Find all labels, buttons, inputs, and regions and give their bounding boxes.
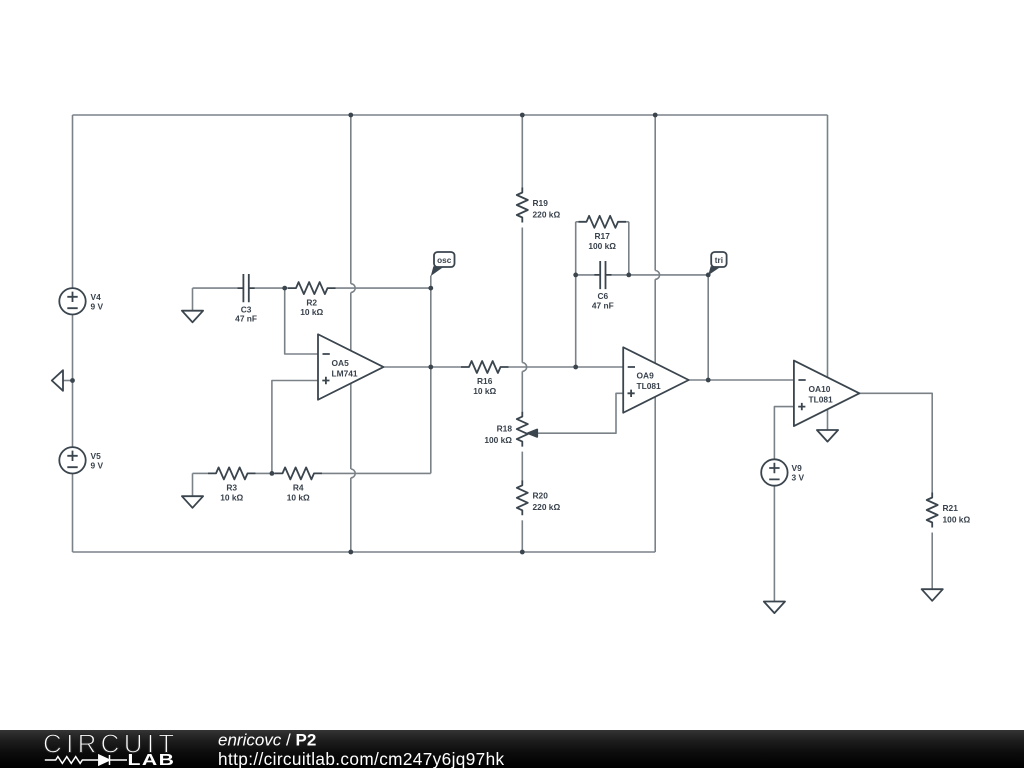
resistor R2 — [288, 282, 336, 294]
voltage source V9 — [761, 459, 787, 485]
wire R17 top left — [576, 221, 579, 223]
svg-text:R20: R20 — [533, 491, 549, 501]
resistor R19 — [517, 188, 528, 223]
osc flag pointer — [431, 266, 443, 276]
svg-text:V4: V4 — [91, 292, 102, 302]
wire R21 to ground — [931, 533, 933, 590]
wire mid vertical lower — [350, 478, 352, 552]
wire C6 to tri node — [612, 274, 709, 276]
svg-text:R4: R4 — [293, 483, 304, 493]
svg-text:R16: R16 — [477, 376, 493, 386]
resistor R21 — [927, 493, 938, 528]
svg-text:http://circuitlab.com/cm247y6j: http://circuitlab.com/cm247y6jq97hk — [218, 749, 505, 768]
wire vertical x655 upper — [654, 115, 656, 271]
svg-text:OA5: OA5 — [332, 358, 350, 368]
junction node 1 — [348, 113, 353, 118]
svg-text:LAB: LAB — [128, 751, 176, 768]
svg-text:10 kΩ: 10 kΩ — [300, 307, 323, 317]
svg-text:47 nF: 47 nF — [235, 314, 257, 324]
wire C3 to R2 — [255, 287, 288, 289]
svg-text:10 kΩ: 10 kΩ — [287, 492, 310, 502]
wire hop over OA5-OA9 wire — [522, 363, 526, 372]
svg-text:TL081: TL081 — [637, 381, 662, 391]
wire OA9 output to OA10 minus input — [689, 379, 794, 381]
wire top rail — [73, 114, 828, 116]
wire rail to R19 — [521, 115, 523, 188]
node terminal arrow — [52, 370, 63, 391]
svg-text:R17: R17 — [595, 231, 611, 241]
svg-text:100 kΩ: 100 kΩ — [943, 514, 971, 524]
wire C6 left — [576, 274, 595, 276]
svg-text:tri: tri — [715, 256, 723, 265]
wire C3 ground stub — [192, 288, 194, 311]
wire hop over C6 wire — [655, 271, 659, 280]
junction node 12 — [573, 273, 578, 278]
ground under R3 — [182, 496, 203, 508]
wire hop over R2 wire — [351, 284, 355, 293]
junction node 14 — [706, 273, 711, 278]
capacitor C3 — [237, 274, 254, 302]
junction node 10 — [348, 550, 353, 555]
footer bar — [0, 730, 1024, 768]
wire tri node down to OA9 output — [707, 275, 709, 380]
resistor R17 — [579, 216, 627, 228]
svg-text:LM741: LM741 — [332, 368, 358, 378]
svg-text:R3: R3 — [226, 483, 237, 493]
ground under C3 — [182, 311, 203, 323]
wire R19 to hop — [521, 228, 523, 363]
voltage source V4 — [59, 288, 85, 314]
svg-text:TL081: TL081 — [809, 395, 834, 405]
wire C6 junction down to OA9 minus wire — [575, 275, 577, 367]
resistor R4 — [275, 467, 323, 479]
wire R17 top right — [626, 221, 629, 223]
wire ground to C3 — [193, 287, 238, 289]
svg-text:V9: V9 — [792, 463, 803, 473]
svg-text:osc: osc — [437, 256, 452, 265]
R18 wiper arrow — [528, 430, 537, 437]
wire R17 left vertical — [575, 222, 577, 275]
voltage source V5 — [59, 447, 85, 473]
svg-text:220 kΩ: 220 kΩ — [533, 502, 561, 512]
svg-text:3 V: 3 V — [792, 473, 805, 483]
wire hop over R4 wire — [351, 469, 355, 478]
wire OA5 plus input to R3/R4 junction — [272, 381, 318, 474]
potentiometer R18 — [517, 412, 528, 447]
svg-text:100 kΩ: 100 kΩ — [588, 241, 616, 251]
wire mid vertical middle — [350, 293, 352, 470]
svg-text:R2: R2 — [306, 297, 317, 307]
junction node 11 — [520, 550, 525, 555]
wire R16 to OA9 minus input — [509, 366, 624, 368]
wire bottom rail — [73, 551, 656, 553]
junction node 4 — [70, 378, 75, 383]
ground under V9 — [764, 602, 785, 614]
wire R20 to bottom rail — [521, 520, 523, 552]
op-amp OA10 — [794, 361, 860, 427]
svg-text:9 V: 9 V — [91, 302, 104, 312]
wire right vertical (rail to ground under OA10) — [827, 115, 829, 430]
resistor R3 — [208, 467, 255, 479]
svg-text:10 kΩ: 10 kΩ — [473, 386, 496, 396]
tri flag pointer — [708, 266, 720, 275]
svg-text:100 kΩ: 100 kΩ — [484, 435, 512, 445]
CircuitLab logo zigzag and diode — [45, 755, 127, 765]
wire mid vertical upper — [350, 115, 352, 284]
junction node 13 — [626, 273, 631, 278]
wire OA5 output to R16 — [384, 366, 462, 368]
junction node 8 — [573, 365, 578, 370]
wire OA10 plus input to V9 — [774, 407, 794, 460]
wire R3 ground stub — [192, 473, 194, 496]
junction node 3 — [653, 113, 658, 118]
wire V9 to ground — [773, 486, 775, 602]
wire ground to R3 — [193, 472, 209, 474]
junction node 7 — [428, 365, 433, 370]
junction node 5 — [282, 286, 287, 291]
op-amp OA5 — [318, 334, 384, 400]
junction node 6 — [428, 286, 433, 291]
wire V5 to bottom rail — [72, 474, 74, 553]
junction node 15 — [706, 378, 711, 383]
svg-text:220 kΩ: 220 kΩ — [533, 209, 561, 219]
wire OA10 output to R21 — [859, 393, 932, 492]
wire OA9 plus input to R18 wiper — [537, 393, 623, 433]
svg-text:enricovc / P2: enricovc / P2 — [218, 731, 316, 750]
junction node 2 — [520, 113, 525, 118]
ground under OA10 — [817, 430, 838, 442]
wire node arrow stub — [63, 380, 73, 382]
svg-text:OA10: OA10 — [809, 384, 831, 394]
wire hop to R18 — [521, 371, 523, 411]
wire V4 to V5 — [72, 315, 74, 448]
wire left rail to V4 — [72, 115, 74, 288]
tri flag box — [711, 252, 726, 267]
wire R17 right vertical — [628, 222, 630, 275]
ground under R21 — [922, 589, 943, 601]
svg-text:R18: R18 — [497, 424, 513, 434]
wire osc node vertical — [430, 276, 432, 474]
wire R2 to osc node — [336, 287, 431, 289]
op-amp OA9 — [623, 347, 689, 413]
wire junction to OA5 minus input — [285, 288, 318, 354]
svg-text:V5: V5 — [91, 451, 102, 461]
svg-text:OA9: OA9 — [637, 371, 655, 381]
wire R3 to R4 — [256, 472, 275, 474]
resistor R20 — [517, 480, 528, 515]
junction node 9 — [270, 471, 275, 476]
wire R4 to osc vertical — [322, 472, 431, 474]
svg-text:9 V: 9 V — [91, 461, 104, 471]
capacitor C6 — [594, 261, 611, 289]
svg-text:10 kΩ: 10 kΩ — [220, 492, 243, 502]
svg-text:R19: R19 — [533, 198, 549, 208]
osc flag box — [434, 252, 455, 267]
svg-text:47 nF: 47 nF — [592, 301, 614, 311]
wire vertical x655 lower — [654, 279, 656, 552]
wire R18 to R20 — [521, 452, 523, 481]
svg-text:R21: R21 — [943, 503, 959, 513]
resistor R16 — [461, 361, 509, 373]
